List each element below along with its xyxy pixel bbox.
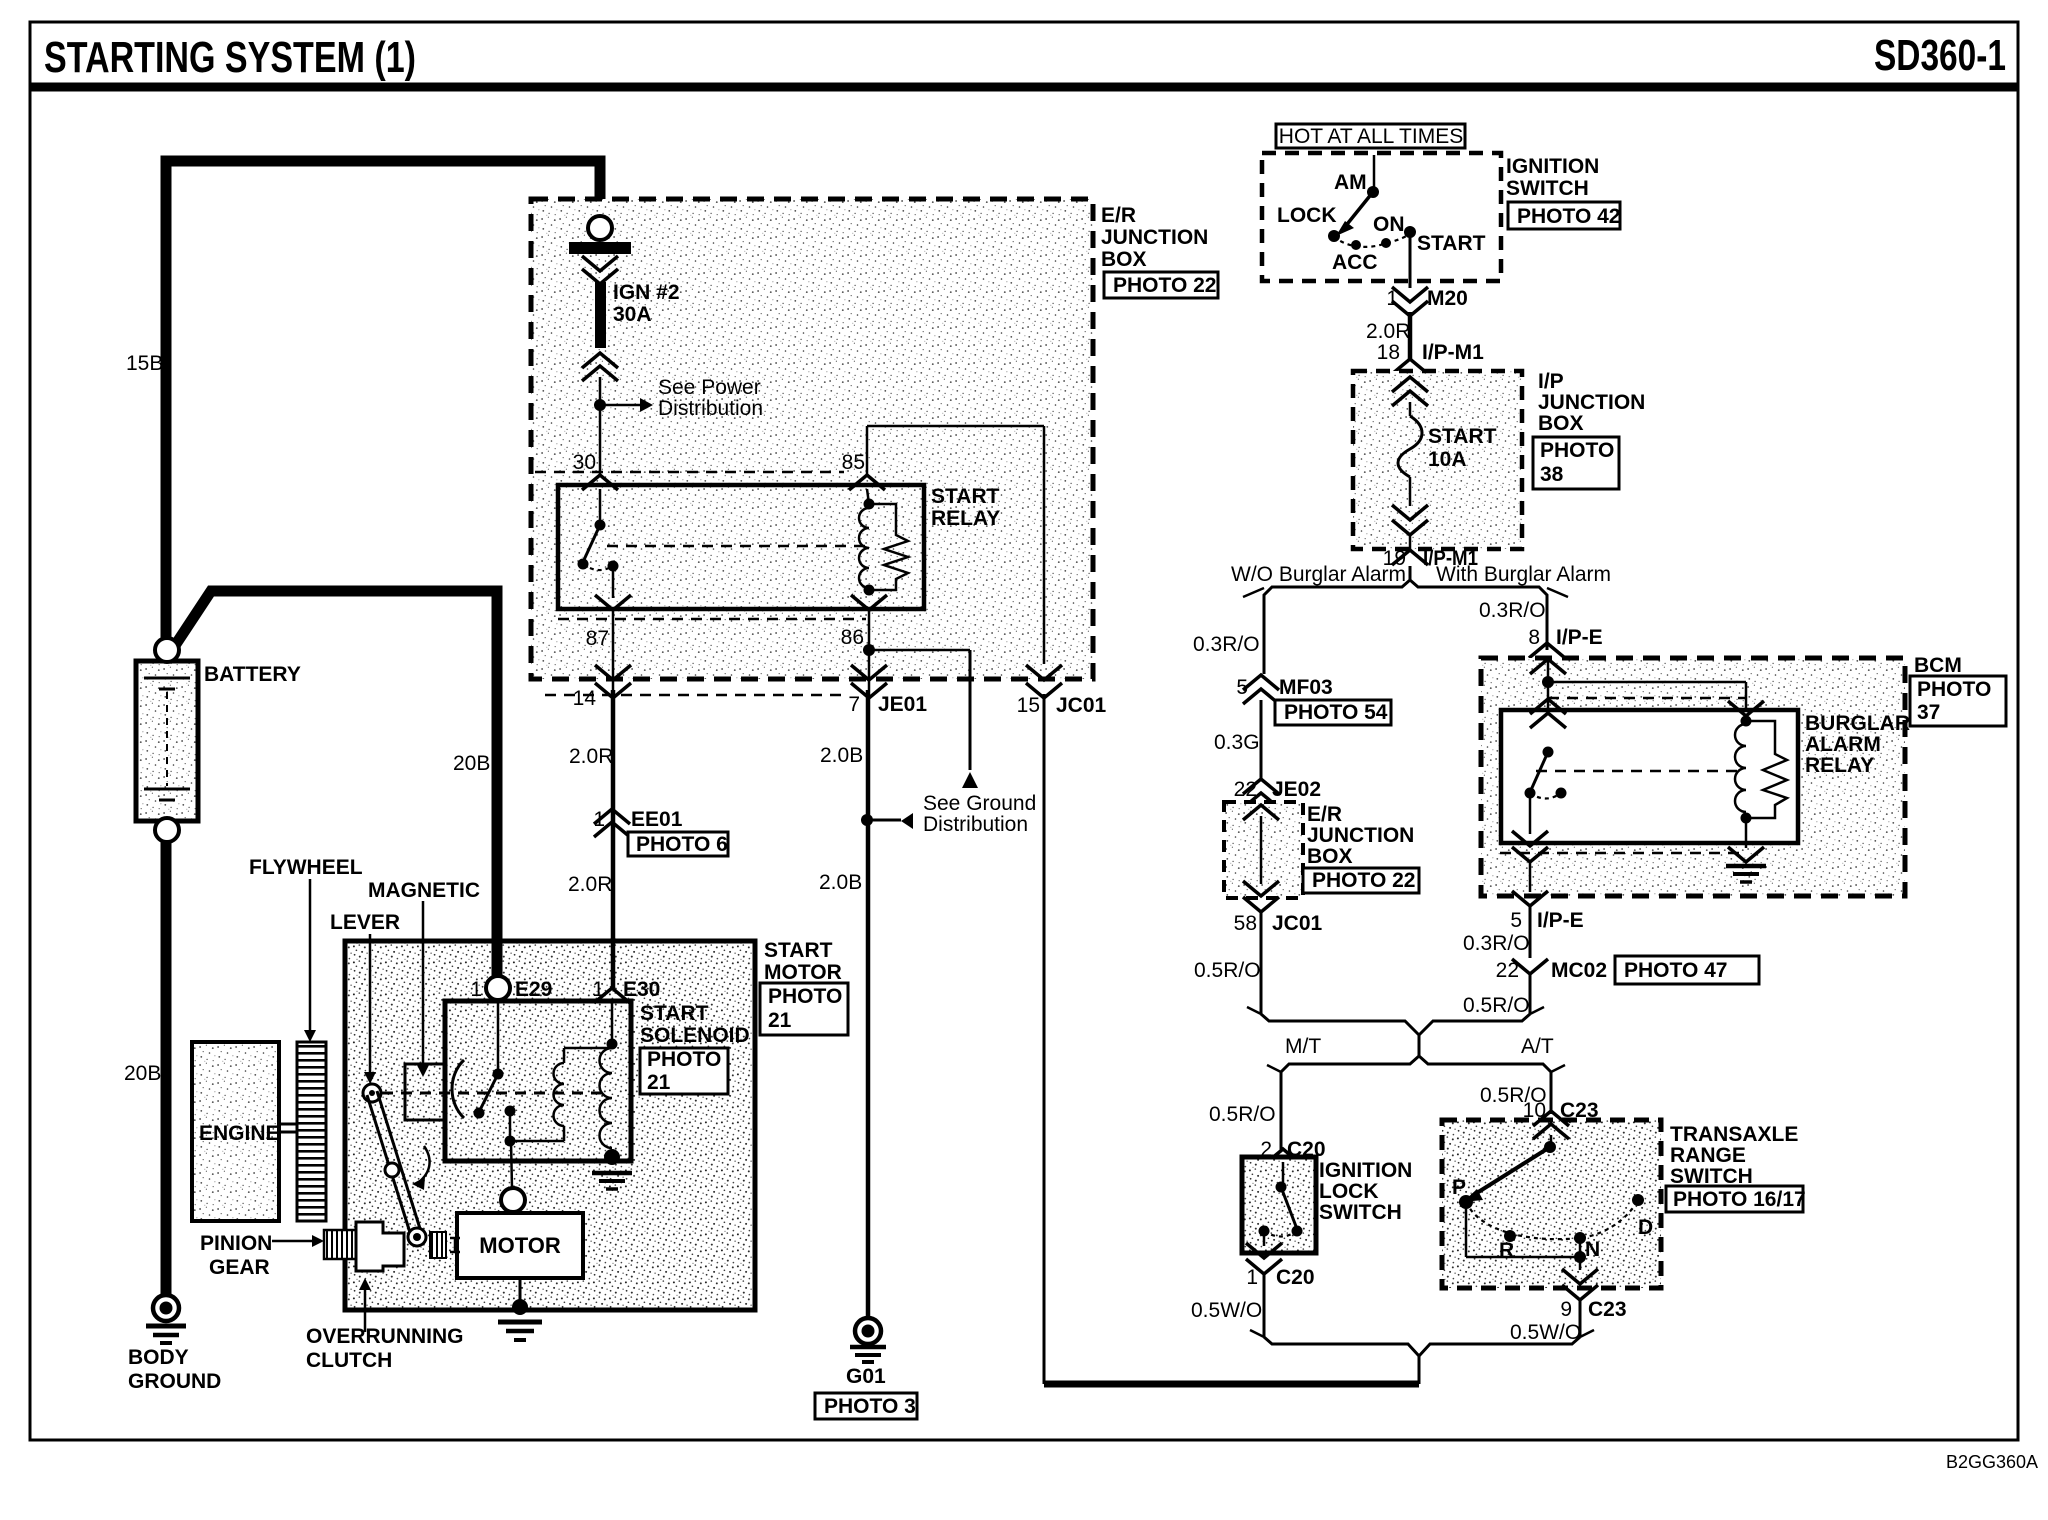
svg-text:PHOTO 54: PHOTO 54 <box>1284 701 1388 724</box>
svg-text:20B: 20B <box>453 752 490 775</box>
svg-text:PHOTO 47: PHOTO 47 <box>1624 959 1727 982</box>
svg-text:0.3R/O: 0.3R/O <box>1193 633 1260 656</box>
svg-text:14: 14 <box>573 687 597 710</box>
svg-text:9: 9 <box>1560 1298 1572 1321</box>
svg-text:BCM: BCM <box>1914 654 1962 677</box>
svg-text:1: 1 <box>1246 1266 1258 1289</box>
svg-text:GEAR: GEAR <box>209 1256 270 1279</box>
svg-text:2.0B: 2.0B <box>819 871 862 894</box>
svg-text:M20: M20 <box>1427 287 1468 310</box>
svg-text:86: 86 <box>841 626 864 649</box>
svg-text:START: START <box>764 939 833 962</box>
svg-text:LOCK: LOCK <box>1277 204 1337 227</box>
svg-text:M/T: M/T <box>1285 1035 1321 1058</box>
svg-text:Distribution: Distribution <box>923 813 1028 836</box>
svg-text:START: START <box>1428 425 1497 448</box>
svg-text:C20: C20 <box>1276 1266 1315 1289</box>
svg-text:CLUTCH: CLUTCH <box>306 1349 392 1372</box>
svg-text:AM: AM <box>1334 171 1367 194</box>
svg-text:30: 30 <box>573 451 596 474</box>
svg-text:B2GG360A: B2GG360A <box>1946 1452 2038 1472</box>
svg-text:PHOTO: PHOTO <box>1540 439 1614 462</box>
svg-text:OVERRUNNING: OVERRUNNING <box>306 1325 464 1348</box>
svg-text:E29: E29 <box>515 978 552 1001</box>
svg-text:JC01: JC01 <box>1056 694 1107 717</box>
svg-text:P: P <box>1452 1176 1466 1199</box>
svg-text:1: 1 <box>1386 287 1398 310</box>
svg-text:RELAY: RELAY <box>1805 754 1874 777</box>
svg-text:PHOTO: PHOTO <box>647 1048 721 1071</box>
svg-text:JE01: JE01 <box>878 693 927 716</box>
svg-text:PHOTO 6: PHOTO 6 <box>636 833 728 856</box>
svg-text:21: 21 <box>768 1009 792 1032</box>
svg-text:JC01: JC01 <box>1272 912 1323 935</box>
svg-text:W/O Burglar Alarm: W/O Burglar Alarm <box>1231 563 1406 586</box>
svg-text:ACC: ACC <box>1332 251 1378 274</box>
svg-text:IGN #2: IGN #2 <box>613 281 680 304</box>
svg-text:G01: G01 <box>846 1365 886 1388</box>
svg-text:38: 38 <box>1540 463 1564 486</box>
svg-text:E30: E30 <box>623 978 660 1001</box>
svg-text:I/P-M1: I/P-M1 <box>1422 341 1484 364</box>
svg-text:START: START <box>640 1002 709 1025</box>
svg-text:START: START <box>1417 232 1486 255</box>
svg-text:SWITCH: SWITCH <box>1319 1201 1402 1224</box>
svg-text:1: 1 <box>470 978 482 1001</box>
svg-text:ON: ON <box>1373 213 1405 236</box>
svg-text:JUNCTION: JUNCTION <box>1307 824 1414 847</box>
svg-text:BOX: BOX <box>1307 845 1353 868</box>
svg-text:0.5R/O: 0.5R/O <box>1463 994 1530 1017</box>
svg-text:BOX: BOX <box>1101 248 1147 271</box>
svg-text:MC02: MC02 <box>1551 959 1607 982</box>
svg-text:BOX: BOX <box>1538 412 1584 435</box>
svg-text:0.5W/O: 0.5W/O <box>1191 1299 1262 1322</box>
svg-text:GROUND: GROUND <box>128 1370 221 1393</box>
svg-text:PHOTO 22: PHOTO 22 <box>1113 274 1216 297</box>
svg-text:0.5W/O: 0.5W/O <box>1510 1321 1581 1344</box>
svg-text:5: 5 <box>1236 676 1248 699</box>
svg-text:E/R: E/R <box>1101 204 1136 227</box>
svg-text:18: 18 <box>1377 341 1400 364</box>
svg-text:30A: 30A <box>613 303 652 326</box>
svg-text:I/P: I/P <box>1538 370 1564 393</box>
svg-text:85: 85 <box>842 451 865 474</box>
svg-text:87: 87 <box>586 627 609 650</box>
svg-text:BURGLAR: BURGLAR <box>1805 712 1910 735</box>
svg-text:BATTERY: BATTERY <box>204 663 301 686</box>
svg-text:ALARM: ALARM <box>1805 733 1881 756</box>
svg-text:15B: 15B <box>126 352 163 375</box>
svg-text:C23: C23 <box>1588 1298 1627 1321</box>
svg-text:PHOTO 42: PHOTO 42 <box>1517 205 1620 228</box>
svg-text:22: 22 <box>1496 959 1519 982</box>
svg-text:0.5R/O: 0.5R/O <box>1194 959 1261 982</box>
svg-text:PHOTO: PHOTO <box>1917 678 1991 701</box>
svg-text:RANGE: RANGE <box>1670 1144 1746 1167</box>
svg-text:ENGINE: ENGINE <box>199 1122 280 1145</box>
svg-text:LEVER: LEVER <box>330 911 400 934</box>
svg-text:TRANSAXLE: TRANSAXLE <box>1670 1123 1798 1146</box>
svg-text:MF03: MF03 <box>1279 676 1333 699</box>
svg-text:SWITCH: SWITCH <box>1506 177 1589 200</box>
svg-text:21: 21 <box>647 1071 671 1094</box>
svg-text:PHOTO 3: PHOTO 3 <box>824 1395 916 1418</box>
svg-text:JUNCTION: JUNCTION <box>1101 226 1208 249</box>
svg-text:MOTOR: MOTOR <box>764 961 842 984</box>
svg-text:IGNITION: IGNITION <box>1319 1159 1412 1182</box>
svg-text:STARTING SYSTEM (1): STARTING SYSTEM (1) <box>44 33 416 82</box>
svg-text:8: 8 <box>1528 626 1540 649</box>
svg-text:58: 58 <box>1234 912 1257 935</box>
svg-text:2.0B: 2.0B <box>820 744 863 767</box>
svg-text:R: R <box>1499 1239 1514 1262</box>
svg-text:2.0R: 2.0R <box>568 873 612 896</box>
svg-text:1: 1 <box>593 808 605 831</box>
svg-text:Distribution: Distribution <box>658 397 763 420</box>
svg-text:See Ground: See Ground <box>923 792 1036 815</box>
svg-text:RELAY: RELAY <box>931 507 1000 530</box>
svg-text:2.0R: 2.0R <box>569 745 613 768</box>
svg-text:I/P-E: I/P-E <box>1537 909 1584 932</box>
svg-text:With Burglar Alarm: With Burglar Alarm <box>1436 563 1611 586</box>
svg-text:PHOTO 16/17: PHOTO 16/17 <box>1673 1188 1806 1211</box>
svg-text:MOTOR: MOTOR <box>479 1233 561 1258</box>
svg-text:PHOTO 22: PHOTO 22 <box>1312 869 1415 892</box>
svg-text:N: N <box>1585 1238 1600 1261</box>
svg-text:0.5R/O: 0.5R/O <box>1209 1103 1276 1126</box>
svg-text:10A: 10A <box>1428 448 1467 471</box>
svg-text:JUNCTION: JUNCTION <box>1538 391 1645 414</box>
svg-text:SOLENOID: SOLENOID <box>640 1024 750 1047</box>
svg-text:LOCK: LOCK <box>1319 1180 1379 1203</box>
svg-text:2.0R: 2.0R <box>1366 320 1410 343</box>
svg-text:See Power: See Power <box>658 376 761 399</box>
svg-text:0.3R/O: 0.3R/O <box>1463 932 1530 955</box>
svg-text:5: 5 <box>1510 909 1522 932</box>
svg-text:MAGNETIC: MAGNETIC <box>368 879 480 902</box>
svg-text:D: D <box>1638 1216 1653 1239</box>
svg-text:7: 7 <box>848 693 860 716</box>
svg-text:SD360-1: SD360-1 <box>1874 31 2006 80</box>
svg-text:PINION: PINION <box>200 1232 272 1255</box>
svg-text:EE01: EE01 <box>631 808 683 831</box>
svg-text:1: 1 <box>592 978 604 1001</box>
svg-text:FLYWHEEL: FLYWHEEL <box>249 856 363 879</box>
svg-text:I/P-E: I/P-E <box>1556 626 1603 649</box>
svg-text:BODY: BODY <box>128 1346 189 1369</box>
svg-text:E/R: E/R <box>1307 803 1342 826</box>
svg-text:IGNITION: IGNITION <box>1506 155 1599 178</box>
svg-text:0.3R/O: 0.3R/O <box>1479 599 1546 622</box>
svg-text:20B: 20B <box>124 1062 161 1085</box>
svg-text:JE02: JE02 <box>1272 778 1321 801</box>
svg-text:A/T: A/T <box>1521 1035 1554 1058</box>
svg-text:22: 22 <box>1234 778 1257 801</box>
svg-text:HOT AT ALL TIMES: HOT AT ALL TIMES <box>1279 125 1463 148</box>
svg-text:37: 37 <box>1917 701 1940 724</box>
svg-text:PHOTO: PHOTO <box>768 985 842 1008</box>
svg-text:START: START <box>931 485 1000 508</box>
svg-text:0.3G: 0.3G <box>1214 731 1260 754</box>
svg-text:15: 15 <box>1017 694 1040 717</box>
